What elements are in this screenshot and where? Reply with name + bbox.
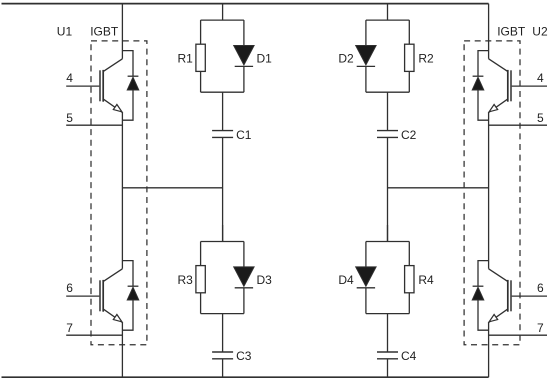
wire to D2: [365, 20, 367, 45]
loop bottom wire R1/D1: [201, 91, 244, 93]
freewheel diode cathode bar U1-upper: [128, 75, 139, 77]
U1-lower main bar: [102, 280, 104, 312]
freewheel diode cathode bar U2-upper: [473, 75, 484, 77]
loop bottom wire R2/D2: [366, 91, 409, 93]
wire to R3: [200, 242, 202, 266]
loop bottom wire R4/D4: [366, 313, 409, 315]
svg-text:C2: C2: [401, 128, 417, 142]
svg-text:7: 7: [537, 321, 544, 335]
freewheel diode U1-upper: [127, 77, 139, 90]
svg-text:6: 6: [537, 281, 544, 295]
wire to C1: [222, 92, 224, 130]
D2 cathode bar: [357, 65, 375, 67]
capacitor C1 top plate: [212, 130, 233, 132]
emitter pin wire 5 U2-upper: [489, 124, 547, 126]
wire below R2: [408, 71, 410, 92]
wire to R2: [408, 20, 410, 44]
module U2 dashed outline: [464, 41, 520, 345]
wire below R1: [200, 71, 202, 92]
D1 cathode bar: [235, 65, 253, 67]
resistor R2: [405, 44, 414, 71]
diode D3: [234, 267, 254, 286]
resistor R4: [405, 266, 414, 293]
collector lead U2-lower: [489, 269, 508, 282]
emitter arrow U2-upper: [489, 104, 498, 111]
wire C2 to lower snubber: [387, 137, 389, 241]
wire stub above R1/D1: [222, 4, 224, 21]
wire to R4: [408, 242, 410, 266]
svg-text:R2: R2: [418, 52, 434, 66]
collector lead U1-upper: [104, 59, 123, 72]
emitter pin wire 5 U1-upper: [66, 124, 122, 126]
loop top wire R1/D1: [201, 19, 244, 21]
wire to C2: [387, 92, 389, 130]
freewheel diode U2-lower: [472, 287, 484, 300]
U1-lower gate bar: [99, 280, 101, 311]
svg-text:C4: C4: [401, 349, 417, 363]
wire below R3: [200, 293, 202, 314]
capacitor C3 top plate: [212, 351, 233, 353]
resistor R3: [196, 266, 205, 293]
U2-lower gate bar: [510, 280, 512, 311]
svg-text:6: 6: [66, 281, 73, 295]
node wire C2/C4 midpoint to right leg: [388, 187, 489, 189]
svg-text:R1: R1: [177, 52, 193, 66]
wire to D1: [243, 20, 245, 45]
freewheel diode bottom wire U2-lower: [478, 300, 489, 330]
wire to R1: [200, 20, 202, 44]
capacitor C2 bottom plate: [377, 136, 398, 138]
wire below D1: [243, 66, 245, 92]
wire to C4: [387, 314, 389, 352]
svg-text:5: 5: [66, 111, 73, 125]
D4 cathode bar: [357, 287, 375, 289]
node wire left leg to C1/C3 midpoint: [122, 187, 222, 189]
wire below R4: [408, 293, 410, 314]
svg-text:U2: U2: [532, 25, 548, 39]
loop top wire R3/D3: [201, 241, 244, 243]
svg-text:D2: D2: [338, 52, 354, 66]
loop top wire R2/D2: [366, 19, 409, 21]
freewheel diode cathode bar U2-lower: [473, 285, 484, 287]
wire C1 to lower snubber: [222, 137, 224, 241]
freewheel diode top wire U2-upper: [478, 51, 489, 76]
D3 cathode bar: [235, 287, 253, 289]
gate lead pin 6 U2-lower: [512, 295, 547, 297]
emitter lead U2-upper: [489, 99, 508, 112]
diode D1: [234, 46, 254, 65]
wire stub above R3/D3: [222, 225, 224, 242]
emitter pin wire 7 U2-lower: [489, 334, 547, 336]
wire stub above R2/D2: [387, 4, 389, 21]
svg-text:C3: C3: [236, 349, 252, 363]
loop bottom wire R3/D3: [201, 313, 244, 315]
gate lead pin 4 U2-upper: [512, 85, 547, 87]
svg-text:7: 7: [66, 321, 73, 335]
wire C4 to bottom rail: [387, 359, 389, 377]
capacitor C4 bottom plate: [377, 358, 398, 360]
U2-upper main bar: [507, 70, 509, 102]
U2-lower main bar: [507, 280, 509, 312]
left phase leg wire: [121, 4, 123, 59]
wire below D2: [365, 66, 367, 92]
wire below D4: [365, 288, 367, 314]
freewheel diode bottom wire U1-lower: [122, 300, 133, 330]
wire below D3: [243, 288, 245, 314]
emitter pin wire 7 U1-lower: [66, 334, 122, 336]
wire to D4: [365, 242, 367, 267]
freewheel diode U1-lower: [127, 287, 139, 300]
freewheel diode cathode bar U1-lower: [128, 285, 139, 287]
wire C3 to bottom rail: [222, 359, 224, 377]
U1-upper main bar: [102, 70, 104, 102]
emitter lead U2-lower: [489, 309, 508, 322]
freewheel diode U2-upper: [472, 77, 484, 90]
diode D2: [356, 46, 376, 65]
svg-text:IGBT: IGBT: [497, 25, 526, 39]
capacitor C2 top plate: [377, 130, 398, 132]
wire to C3: [222, 314, 224, 352]
emitter arrow U2-lower: [489, 314, 498, 321]
U2-upper gate bar: [510, 70, 512, 101]
svg-text:R3: R3: [177, 273, 193, 287]
emitter lead U1-upper: [104, 99, 123, 112]
svg-text:4: 4: [537, 71, 544, 85]
freewheel diode top wire U1-lower: [122, 261, 133, 286]
svg-text:IGBT: IGBT: [90, 25, 119, 39]
emitter arrow U1-lower: [113, 314, 122, 321]
collector lead U2-upper: [489, 59, 508, 72]
gate lead pin 6 U1-lower: [66, 295, 99, 297]
svg-text:D4: D4: [338, 273, 354, 287]
svg-text:4: 4: [66, 71, 73, 85]
resistor R1: [196, 44, 205, 71]
freewheel diode top wire U2-lower: [478, 261, 489, 286]
svg-text:D1: D1: [257, 52, 273, 66]
right phase leg wire: [488, 4, 490, 59]
svg-text:5: 5: [537, 111, 544, 125]
emitter lead U1-lower: [104, 309, 123, 322]
emitter arrow U1-upper: [113, 104, 122, 111]
loop top wire R4/D4: [366, 241, 409, 243]
collector lead U1-lower: [104, 269, 123, 282]
gate lead pin 4 U1-upper: [66, 85, 99, 87]
svg-text:D3: D3: [257, 273, 273, 287]
svg-text:R4: R4: [418, 273, 434, 287]
U1-upper gate bar: [99, 70, 101, 101]
capacitor C1 bottom plate: [212, 136, 233, 138]
capacitor C3 bottom plate: [212, 358, 233, 360]
freewheel diode top wire U1-upper: [122, 51, 133, 76]
diode D4: [356, 267, 376, 286]
capacitor C4 top plate: [377, 351, 398, 353]
freewheel diode bottom wire U1-upper: [122, 90, 133, 120]
svg-text:U1: U1: [57, 25, 73, 39]
bottom DC bus rail: [2, 376, 489, 378]
svg-text:C1: C1: [236, 128, 252, 142]
freewheel diode bottom wire U2-upper: [478, 90, 489, 120]
top DC bus rail: [2, 3, 489, 5]
wire to D3: [243, 242, 245, 267]
wire stub above R4/D4: [387, 225, 389, 242]
module U1 dashed outline: [91, 41, 147, 345]
